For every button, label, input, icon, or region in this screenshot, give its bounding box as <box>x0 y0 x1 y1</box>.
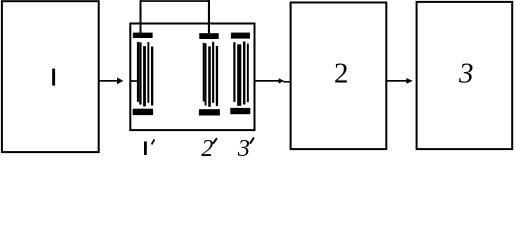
label 1' prime tick <box>152 139 155 144</box>
wire top bracket horizontal <box>140 0 211 2</box>
element 3' top cap <box>231 33 250 39</box>
arrowhead into middle box <box>117 77 123 84</box>
label 3' prime tick <box>250 138 254 144</box>
element 3' plate 1 <box>233 42 235 102</box>
element 2' plate 3 <box>212 42 214 103</box>
box 1 (feed block) <box>2 1 99 152</box>
element 1' top cap <box>133 33 153 38</box>
label 1 (bar glyph inside box 1) <box>52 69 55 86</box>
element 2' bottom cap <box>199 109 220 115</box>
box 2 <box>291 3 387 150</box>
label 2' prime tick <box>213 138 217 144</box>
wire middle box to box 2 <box>255 80 279 82</box>
svg-text:2: 2 <box>334 58 349 90</box>
element 3' plate 3 <box>243 42 245 105</box>
svg-text:3: 3 <box>458 58 474 90</box>
element 2' plate 2 <box>208 46 211 106</box>
element 3' plate 2 <box>237 44 241 106</box>
element 2' top cap <box>199 33 218 39</box>
svg-text:3: 3 <box>237 136 250 159</box>
element 1' plate 4 <box>151 47 153 106</box>
element 1' plate 3 <box>147 42 149 103</box>
element 3' plate 4 <box>247 44 249 103</box>
wire top bracket left vertical (to element 1' cap) <box>140 0 142 33</box>
element 3' bottom cap <box>230 108 250 114</box>
svg-text:2: 2 <box>201 136 213 159</box>
element 2' plate 1b <box>205 43 207 105</box>
element 1' plate 2 <box>143 46 146 106</box>
element 2' plate 4 <box>216 46 218 106</box>
wire box 2 to box 3 <box>387 80 407 82</box>
element 1' bottom cap <box>133 109 153 115</box>
label 1' bar glyph <box>144 141 147 155</box>
element 1' plate 1a <box>137 42 139 102</box>
middle box (module enclosure) <box>130 24 254 131</box>
wire inlet inside middle box to element 1' <box>130 80 138 82</box>
wire top bracket right vertical (to element 2' cap) <box>208 0 210 34</box>
wire stub arrow2 tip to box 2 <box>284 81 290 83</box>
element 2' plate 1a <box>203 43 205 102</box>
wire box1 to middle box <box>99 80 118 82</box>
arrowhead into box 2 <box>279 78 285 83</box>
element 1' plate 1b <box>139 42 141 104</box>
box 3 <box>417 2 513 149</box>
arrowhead into box 3 <box>406 78 413 84</box>
